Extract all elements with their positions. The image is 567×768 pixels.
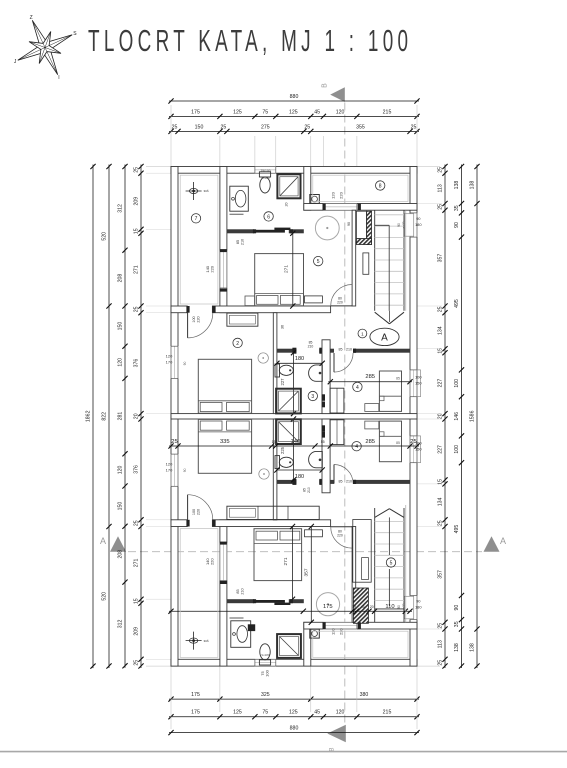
wall bath bottom unit 15cm (dark segments) — [227, 599, 254, 603]
svg-text:210: 210 — [346, 348, 352, 352]
wall above bottom terrace — [304, 622, 417, 629]
outer wall right — [410, 167, 417, 667]
sliding door bottom (dark bars) — [254, 600, 285, 603]
svg-text:90: 90 — [347, 222, 351, 226]
interior dim line y381 (285) — [328, 381, 412, 383]
interior dim 357 bottom — [310, 527, 312, 623]
svg-text:140: 140 — [291, 439, 301, 445]
lamp circle bottom — [259, 469, 269, 479]
stairs top landing edge — [375, 224, 390, 226]
interior dim 227 vertical top — [293, 353, 295, 414]
svg-text:suš: suš — [204, 189, 209, 193]
nightstand room4 top — [365, 404, 379, 412]
outer wall bottom — [171, 659, 417, 666]
svg-text:25: 25 — [411, 124, 417, 130]
svg-text:85: 85 — [396, 376, 400, 380]
svg-text:25: 25 — [438, 306, 444, 312]
svg-text:25: 25 — [171, 439, 177, 445]
small cupboard top unit — [363, 253, 369, 274]
window left wall upper 120/170 — [171, 346, 179, 378]
interior dim 180 bath bottom — [277, 469, 322, 471]
door terrace upper 140/220 — [219, 251, 227, 289]
svg-text:376: 376 — [134, 359, 140, 368]
svg-text:25: 25 — [304, 124, 310, 130]
svg-text:5: 5 — [317, 259, 320, 265]
svg-text:25: 25 — [134, 520, 140, 526]
svg-text:281: 281 — [118, 412, 124, 421]
svg-text:25: 25 — [134, 660, 140, 666]
left dimension chain 520/822/520 — [108, 165, 110, 669]
svg-text:85: 85 — [396, 441, 400, 445]
svg-text:495: 495 — [454, 525, 460, 534]
svg-text:113: 113 — [438, 184, 444, 192]
svg-text:100: 100 — [454, 445, 460, 454]
section marker A right — [484, 536, 500, 551]
svg-text:p=70: p=70 — [402, 603, 406, 610]
svg-text:20: 20 — [370, 605, 374, 609]
svg-text:6: 6 — [267, 214, 270, 220]
interior dim 271 room5 top — [292, 233, 294, 306]
svg-text:150: 150 — [195, 124, 204, 130]
svg-text:5: 5 — [390, 560, 393, 566]
window right wall 90/180 upper — [410, 213, 418, 237]
svg-text:220: 220 — [197, 509, 201, 515]
svg-text:4: 4 — [355, 444, 358, 450]
bed room4 bottom (vertical single) — [379, 421, 401, 462]
svg-text:9x180: 9x180 — [261, 176, 270, 180]
svg-text:209: 209 — [134, 197, 140, 206]
svg-text:15: 15 — [134, 598, 140, 604]
svg-text:100: 100 — [415, 374, 422, 379]
stairs top flight — [374, 210, 376, 311]
kitchen counter bottom unit — [353, 520, 371, 583]
svg-text:210: 210 — [241, 239, 245, 245]
svg-text:312: 312 — [118, 619, 124, 628]
round table bottom unit — [316, 593, 339, 616]
svg-text:175: 175 — [323, 604, 333, 610]
svg-text:150: 150 — [118, 502, 124, 511]
svg-text:208: 208 — [118, 274, 124, 283]
svg-text:120: 120 — [166, 461, 173, 466]
svg-text:495: 495 — [454, 299, 460, 308]
svg-text:150: 150 — [118, 322, 124, 331]
svg-text:55: 55 — [321, 440, 325, 444]
core left wall (bottom) — [273, 419, 277, 520]
svg-text:4: 4 — [356, 385, 359, 391]
svg-text:9x180: 9x180 — [261, 653, 270, 657]
wall x322 (bottom) — [322, 419, 330, 493]
bottom dimension chain row 2 — [169, 716, 419, 718]
svg-text:180: 180 — [295, 474, 304, 480]
door hall top (80/210) — [331, 285, 352, 306]
stairs bottom flight — [374, 508, 376, 622]
WC core bottom unit — [275, 456, 280, 469]
svg-text:25: 25 — [410, 439, 416, 445]
svg-text:I: I — [58, 75, 59, 81]
window right wall 100/150 lower — [410, 436, 418, 463]
kitchen counter top unit — [356, 211, 366, 238]
black jambs wall x322 top — [322, 394, 325, 401]
window top wall 75/100 — [255, 166, 276, 174]
svg-text:880: 880 — [290, 726, 299, 732]
fan symbol top terrace — [186, 190, 202, 192]
WC core top unit (wall hung, horizontal) — [275, 364, 280, 377]
svg-text:3: 3 — [311, 394, 314, 400]
bottom-right terrace inner line — [313, 631, 408, 657]
svg-text:B: B — [330, 747, 336, 751]
svg-text:113: 113 — [438, 640, 444, 648]
svg-text:120: 120 — [166, 354, 173, 359]
svg-text:90: 90 — [454, 222, 460, 228]
wardrobe room4 top — [330, 388, 344, 413]
svg-text:376: 376 — [134, 465, 140, 474]
svg-text:20: 20 — [285, 203, 289, 207]
window right wall 100/150 upper — [410, 370, 418, 397]
svg-text:335: 335 — [220, 439, 230, 445]
extension lines bottom — [219, 666, 221, 712]
wall between bath and terrace bottom — [304, 622, 311, 666]
svg-text:25: 25 — [438, 167, 444, 173]
detail callout circle 1 + oval A — [358, 329, 367, 338]
nightstand room4 bottom — [365, 421, 379, 429]
svg-text:380: 380 — [360, 692, 369, 698]
interior dim 271 room bottom — [292, 527, 294, 600]
bed bedroom2 top — [198, 359, 251, 413]
column top terrace8 corner — [310, 195, 320, 204]
round table top unit — [315, 216, 339, 240]
svg-text:90: 90 — [183, 468, 187, 472]
interior dim 180 bath top — [277, 362, 322, 364]
svg-text:100: 100 — [192, 509, 196, 515]
interior dim line y446 — [169, 445, 419, 447]
top dimension chain row 2 — [169, 115, 419, 117]
svg-text:8: 8 — [379, 183, 382, 189]
svg-text:285: 285 — [365, 439, 375, 445]
svg-text:1862: 1862 — [86, 410, 92, 422]
window bottom wall 75/100 — [255, 659, 276, 667]
outer wall left — [171, 167, 178, 667]
svg-text:100: 100 — [192, 316, 196, 322]
door room4 top — [334, 353, 353, 372]
svg-text:220: 220 — [337, 533, 343, 537]
svg-text:138: 138 — [454, 643, 460, 652]
svg-text:45: 45 — [361, 605, 365, 609]
extension lines left — [146, 166, 171, 168]
room number 5 bottom — [386, 558, 395, 567]
svg-text:25: 25 — [438, 660, 444, 666]
svg-text:2: 2 — [236, 341, 239, 347]
room number 7 — [191, 214, 200, 223]
door room4 bottom — [334, 465, 353, 484]
svg-text:120: 120 — [331, 191, 336, 198]
svg-text:25: 25 — [172, 124, 178, 130]
outer wall top — [171, 167, 417, 174]
svg-text:357: 357 — [304, 568, 310, 576]
svg-text:25: 25 — [134, 306, 140, 312]
stairs top divider — [388, 225, 390, 310]
svg-text:271: 271 — [134, 265, 140, 274]
svg-text:20: 20 — [438, 413, 444, 419]
svg-text:85: 85 — [236, 240, 240, 244]
shelf line under sink top — [230, 213, 244, 215]
left dimension chain total 1862 — [92, 165, 94, 669]
svg-text:125: 125 — [233, 109, 242, 115]
svg-text:880: 880 — [290, 94, 299, 100]
svg-text:15: 15 — [352, 605, 356, 609]
svg-text:110: 110 — [385, 604, 394, 610]
shower core top unit — [276, 389, 301, 414]
compass rose — [18, 20, 72, 74]
room number 3 — [308, 391, 317, 400]
section marker B top — [330, 87, 345, 102]
svg-text:J: J — [14, 59, 17, 65]
right dimension chain 2 — [461, 165, 463, 669]
svg-text:312: 312 — [118, 204, 124, 213]
sheet frame bottom line — [0, 751, 567, 753]
top dimension chain row 3 — [169, 130, 419, 132]
wall terrace7 right — [220, 167, 227, 313]
door bedroom2 bottom — [188, 495, 213, 520]
washbasin core bottom unit (D shape) — [309, 451, 323, 467]
svg-text:90: 90 — [397, 223, 401, 227]
hatched shaft bottom — [353, 588, 368, 623]
svg-text:90: 90 — [183, 362, 187, 366]
door to terrace8 120/220 — [323, 203, 357, 211]
svg-text:271: 271 — [284, 265, 290, 273]
svg-text:210: 210 — [346, 479, 352, 483]
svg-text:36: 36 — [281, 325, 285, 329]
title text — [88, 25, 412, 59]
svg-text:90: 90 — [454, 605, 460, 611]
svg-text:120: 120 — [118, 358, 124, 367]
svg-text:A: A — [100, 536, 106, 546]
svg-text:35: 35 — [454, 621, 460, 627]
svg-text:p=70: p=70 — [402, 221, 406, 228]
svg-text:A: A — [500, 536, 506, 546]
room number 2 — [233, 338, 242, 347]
svg-text:100: 100 — [454, 379, 460, 388]
svg-text:220: 220 — [337, 300, 343, 304]
svg-text:25: 25 — [438, 520, 444, 526]
fan symbol bottom terrace — [186, 640, 202, 642]
door hall bottom — [331, 527, 352, 548]
terrace7 inner line — [180, 175, 218, 304]
stair side rail lines — [405, 210, 407, 311]
svg-text:85: 85 — [339, 479, 343, 483]
svg-text:45: 45 — [314, 109, 320, 115]
section marker A left — [110, 536, 126, 551]
wall bath6 bottom 15cm (dark segments) — [227, 229, 254, 233]
wall y348 segments (top, dark filled) — [273, 349, 296, 353]
section line A-A horizontal — [128, 551, 482, 553]
svg-text:180: 180 — [415, 222, 422, 227]
svg-text:15: 15 — [134, 228, 140, 234]
svg-text:325: 325 — [261, 692, 270, 698]
svg-text:227: 227 — [438, 379, 444, 388]
bed bedroom bottom unit — [254, 529, 302, 581]
stairs bottom landing edge — [375, 608, 404, 610]
svg-text:138: 138 — [454, 181, 460, 190]
washbasin core top unit (D shape) — [309, 365, 323, 381]
svg-text:150: 150 — [415, 380, 422, 385]
lamp circle top — [258, 353, 268, 363]
wall below terrace8 — [304, 204, 417, 211]
wall terrace bottom-left right — [220, 520, 227, 666]
shelf near hall door top — [305, 296, 323, 303]
svg-text:90: 90 — [416, 216, 421, 221]
stairs top direction arrow — [375, 312, 390, 324]
wall y520 with door gaps (bottom unit) — [171, 520, 187, 527]
terrace8 inner line — [313, 175, 408, 201]
window right wall 90/180 lower — [410, 596, 418, 620]
svg-text:138: 138 — [470, 643, 476, 652]
svg-text:180: 180 — [295, 356, 304, 362]
extension lines top — [219, 136, 221, 167]
svg-text:220: 220 — [339, 191, 344, 198]
bottom-left terrace inner line — [180, 529, 218, 658]
svg-text:822: 822 — [102, 412, 108, 421]
door to bottom terrace 120/220 — [323, 622, 357, 630]
svg-text:120: 120 — [118, 465, 124, 474]
wall y480 segments (bottom, dark filled) — [273, 480, 296, 484]
svg-text:271: 271 — [134, 558, 140, 567]
svg-text:275: 275 — [261, 124, 270, 130]
svg-text:suš: suš — [204, 639, 209, 643]
door bedroom2 top — [188, 313, 213, 338]
sliding door top (dark bars) — [254, 230, 285, 233]
svg-text:75/100: 75/100 — [260, 169, 270, 173]
svg-text:90: 90 — [416, 599, 421, 604]
wardrobe room4 bottom — [330, 420, 344, 445]
svg-text:180: 180 — [415, 605, 422, 610]
core left wall (top) — [273, 313, 277, 414]
shelf near hall door bottom — [305, 530, 323, 537]
svg-text:25: 25 — [438, 623, 444, 629]
wardrobe row bottom unit — [227, 506, 319, 519]
svg-text:134: 134 — [438, 326, 444, 335]
WC bath top — [259, 172, 270, 177]
section marker B bottom — [327, 725, 346, 743]
shower core bottom unit — [276, 419, 301, 444]
svg-text:1: 1 — [361, 331, 364, 336]
svg-text:271: 271 — [283, 557, 289, 565]
shower bath top — [277, 174, 300, 198]
interior dim 225 vertical bottom — [293, 419, 295, 480]
svg-text:120: 120 — [336, 710, 345, 716]
svg-text:170: 170 — [166, 359, 173, 364]
dark shaft square bottom bath — [248, 624, 255, 631]
svg-text:209: 209 — [134, 627, 140, 636]
svg-text:175: 175 — [191, 710, 200, 716]
wall beside stairs (top) — [352, 210, 356, 306]
svg-text:170: 170 — [166, 467, 173, 472]
bottom dimension chain total 880 — [169, 732, 419, 734]
svg-text:25: 25 — [438, 204, 444, 210]
right dimension chain 1 — [444, 165, 446, 669]
svg-text:125: 125 — [289, 109, 298, 115]
svg-text:85: 85 — [236, 589, 240, 593]
svg-text:208: 208 — [118, 550, 124, 559]
svg-text:75: 75 — [262, 710, 268, 716]
svg-text:100: 100 — [265, 669, 270, 676]
window left wall lower 120/170 — [171, 454, 179, 486]
svg-text:175: 175 — [191, 109, 200, 115]
svg-text:357: 357 — [438, 254, 444, 263]
svg-text:A: A — [381, 332, 388, 343]
svg-text:120: 120 — [336, 109, 345, 115]
svg-text:520: 520 — [102, 232, 108, 241]
wall beside stairs (bottom) — [352, 527, 356, 623]
svg-text:90: 90 — [397, 605, 401, 609]
room number 8 — [376, 181, 385, 190]
svg-text:215: 215 — [383, 710, 392, 716]
svg-text:357: 357 — [438, 570, 444, 579]
svg-text:220: 220 — [197, 316, 201, 322]
svg-text:TLOCRT KATA, MJ 1 : 100: TLOCRT KATA, MJ 1 : 100 — [88, 25, 412, 59]
wall y306 with door gaps (top unit) — [171, 306, 187, 313]
svg-text:15: 15 — [272, 440, 276, 444]
svg-text:210: 210 — [307, 487, 311, 493]
svg-text:S: S — [73, 31, 77, 37]
room number 5 — [314, 256, 323, 265]
bed bedroom2 bottom unit — [198, 419, 251, 473]
svg-text:520: 520 — [102, 592, 108, 601]
WC bath bottom — [259, 660, 270, 665]
bed bedroom5 top — [255, 254, 304, 306]
wall x322 (top) — [322, 340, 330, 414]
left dimension chain col 3 — [124, 165, 126, 668]
hatched shaft top (kitchen flue) — [367, 211, 372, 244]
svg-text:225: 225 — [280, 446, 285, 454]
svg-text:227: 227 — [438, 445, 444, 454]
svg-text:35: 35 — [454, 205, 460, 211]
shelf line above sink bottom — [230, 617, 244, 619]
svg-text:355: 355 — [356, 124, 365, 130]
washbasin bath bottom — [231, 621, 251, 648]
room number 6 — [264, 212, 273, 221]
svg-text:85: 85 — [339, 348, 343, 352]
right dimension chain 3 — [476, 165, 478, 669]
svg-text:285: 285 — [365, 374, 375, 380]
svg-text:25: 25 — [134, 167, 140, 173]
svg-text:215: 215 — [383, 109, 392, 115]
svg-text:125: 125 — [289, 710, 298, 716]
svg-text:134: 134 — [438, 497, 444, 506]
left dimension chain col 4 — [140, 165, 142, 669]
washbasin bath top — [230, 186, 249, 211]
svg-text:20: 20 — [134, 413, 140, 419]
room number 4 bottom — [352, 442, 361, 451]
svg-text:138: 138 — [470, 181, 476, 190]
top dimension chain total 880 — [169, 100, 419, 102]
svg-text:210: 210 — [241, 588, 245, 594]
wardrobe room2 top — [227, 313, 258, 326]
svg-text:220: 220 — [210, 265, 215, 272]
svg-text:220: 220 — [210, 558, 215, 565]
bed room4 top (vertical single) — [379, 371, 401, 411]
opening jambs — [186, 306, 189, 313]
svg-text:25: 25 — [221, 124, 227, 130]
extension lines right — [417, 166, 440, 168]
svg-text:75: 75 — [262, 109, 268, 115]
bottom dimension chain row 1 — [169, 698, 419, 700]
svg-text:175: 175 — [191, 692, 200, 698]
svg-text:7: 7 — [195, 216, 198, 222]
black jambs wall x322 bottom — [322, 425, 325, 432]
svg-text:B: B — [322, 83, 329, 88]
wall between bath6 and terrace8 top — [304, 167, 311, 211]
svg-text:210: 210 — [308, 344, 314, 348]
